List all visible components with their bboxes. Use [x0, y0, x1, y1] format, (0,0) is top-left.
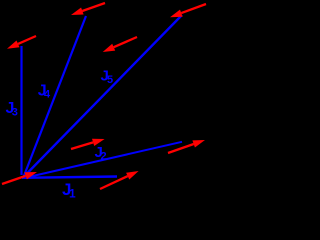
svg-text:4: 4: [44, 89, 51, 101]
svg-text:1: 1: [69, 187, 76, 201]
svg-text:2: 2: [101, 151, 107, 163]
svg-text:5: 5: [107, 74, 113, 86]
svg-text:3: 3: [12, 107, 18, 119]
